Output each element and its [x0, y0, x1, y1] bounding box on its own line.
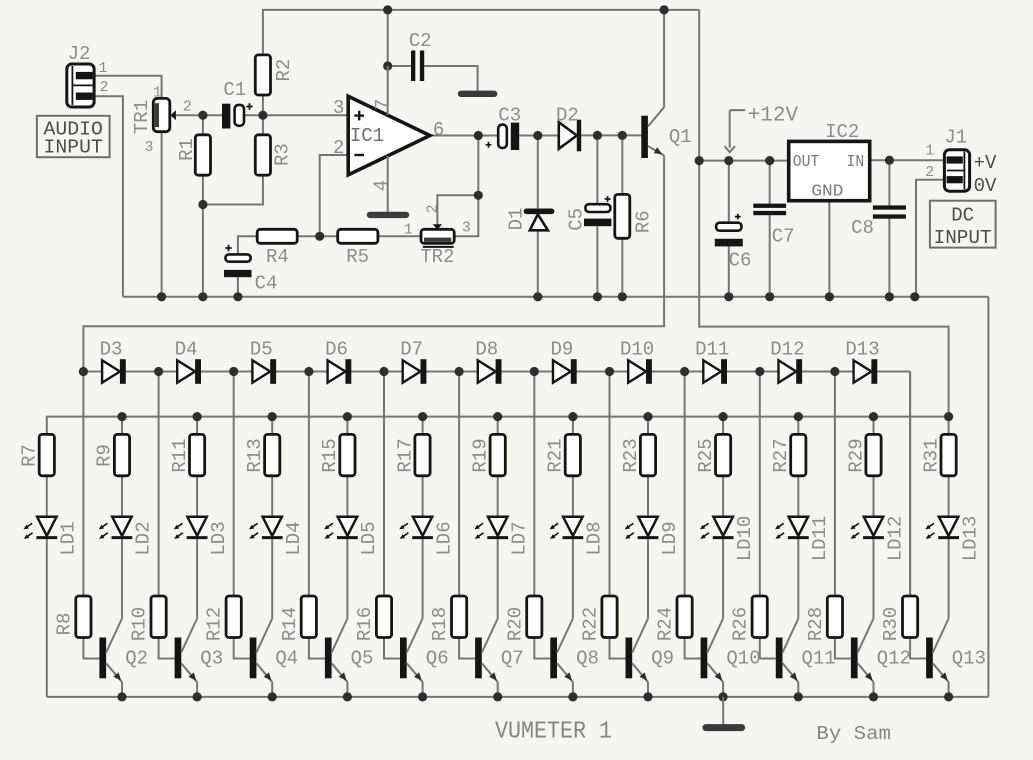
svg-text:C4: C4	[255, 273, 278, 295]
svg-text:IC2: IC2	[825, 121, 859, 143]
connector J2	[67, 64, 94, 107]
label box AUDIO INPUT	[37, 116, 110, 157]
svg-text:Q6: Q6	[426, 648, 449, 670]
svg-text:D8: D8	[475, 339, 498, 361]
junction: ground bus / TR1 pin 3	[157, 292, 166, 301]
svg-text:Q4: Q4	[275, 648, 298, 670]
wire: diode node down to R8	[82, 372, 84, 597]
wire: LD8 cathode to Q8 collector	[572, 539, 574, 619]
voltage regulator IC2	[789, 141, 870, 200]
wire: rail stub to R11	[196, 417, 198, 435]
svg-text:D2: D2	[556, 105, 579, 127]
wire: rail stub to R29	[873, 417, 875, 435]
wire: +12V node to IC2 OUT pin	[699, 160, 789, 162]
junction: TR2 wiper node	[474, 191, 483, 200]
svg-text:Q10: Q10	[726, 648, 760, 670]
svg-text:GND: GND	[811, 182, 843, 201]
power +12V	[725, 110, 746, 152]
wire: IC1 pin 7 up to C2 node	[387, 10, 389, 66]
svg-text:R28: R28	[805, 607, 827, 641]
svg-text:R2: R2	[273, 59, 295, 82]
wire: diode node down to R10	[158, 372, 160, 597]
wire: R1 bottom to ground bus	[202, 175, 204, 297]
junction: IC1 pin 2 / R4 / R5	[315, 232, 324, 241]
resistor R1	[195, 135, 210, 175]
svg-text:C3: C3	[498, 105, 521, 127]
junction: diode chain node 3	[229, 367, 238, 376]
transistor Q11	[776, 619, 799, 683]
wire: LED supply rail	[47, 417, 949, 435]
svg-text:R6: R6	[632, 210, 654, 233]
svg-text:LD2: LD2	[133, 521, 155, 555]
svg-text:By Sam: By Sam	[816, 723, 891, 745]
svg-text:R3: R3	[271, 143, 293, 166]
wire: J1 pin 2 down to ground bus	[916, 180, 944, 297]
resistor R27	[791, 434, 806, 475]
junction: LED rail / R21	[568, 412, 577, 421]
junction: C5 tap	[593, 131, 602, 140]
svg-text:2: 2	[925, 164, 934, 181]
wire: R13 to LD4	[271, 476, 273, 517]
junction: LED rail / R31	[944, 412, 953, 421]
svg-text:D13: D13	[845, 339, 879, 361]
svg-text:D11: D11	[695, 339, 729, 361]
wire: LD9 cathode to Q9 collector	[647, 539, 649, 619]
svg-text:2: 2	[333, 137, 344, 159]
svg-text:R21: R21	[545, 438, 567, 472]
LED LD8	[550, 517, 584, 539]
junction: LED rail / R25	[719, 412, 728, 421]
junction: diode chain node 1	[79, 367, 88, 376]
capacitor C7	[753, 204, 786, 216]
diode D2	[559, 120, 581, 152]
svg-text:Q7: Q7	[501, 648, 524, 670]
junction: diode chain node 4	[304, 367, 313, 376]
svg-text:D1: D1	[505, 208, 527, 231]
capacitor C8	[873, 205, 906, 218]
wire: J2 pin 2 down to ground bus	[94, 96, 123, 296]
svg-text:R22: R22	[580, 607, 602, 641]
svg-text:LD13: LD13	[959, 516, 981, 562]
LED LD9	[625, 517, 659, 539]
svg-text:R7: R7	[19, 444, 41, 467]
wire: R11 to LD3	[196, 476, 198, 517]
svg-text:R29: R29	[845, 438, 867, 472]
svg-text:R17: R17	[394, 438, 416, 472]
LED LD2	[99, 517, 133, 539]
capacitor C2	[411, 51, 424, 82]
wire: R20 to Q8 base	[534, 638, 550, 659]
wire: R17 to LD6	[422, 476, 424, 517]
wire: R5 to TR2 pin 1	[378, 235, 421, 237]
svg-text:LD5: LD5	[358, 521, 380, 555]
resistor R24	[677, 596, 692, 638]
wire: right ground rail down to bottom bus	[987, 297, 989, 697]
wire: R7 to LD1	[46, 476, 48, 517]
junction: diode chain node 6	[455, 367, 464, 376]
LED LD6	[399, 517, 433, 539]
wire: R9 to LD2	[121, 476, 123, 517]
diode D6	[328, 359, 352, 384]
wire: Q2 emitter to ground bus	[121, 682, 123, 697]
wire: R29 to LD12	[873, 476, 875, 517]
svg-text:IN: IN	[847, 152, 865, 171]
junction: LED rail / R29	[869, 412, 878, 421]
svg-text:DC: DC	[951, 204, 974, 226]
junction: ground bus / D1	[533, 292, 542, 301]
wire: diode node down to R28	[834, 372, 836, 597]
resistor R26	[752, 596, 767, 638]
transistor Q2	[99, 619, 122, 683]
junction: V+ rail / Q1 collector	[660, 5, 669, 14]
svg-text:Q11: Q11	[802, 648, 836, 670]
wire: R2 bottom to R3 top through node	[262, 95, 264, 135]
diode D13	[854, 359, 878, 384]
junction: C7 tap on +12V	[765, 156, 774, 165]
svg-text:R24: R24	[655, 607, 677, 641]
wire: C7 top	[769, 161, 771, 204]
wire: C3 to D2 anode node	[519, 135, 559, 137]
junction: R6 tap	[618, 131, 627, 140]
svg-text:Q2: Q2	[125, 648, 148, 670]
wire: R16 to Q6 base	[384, 638, 400, 659]
resistor R5	[338, 229, 378, 243]
wire: R24 to Q10 base	[685, 638, 701, 659]
svg-text:1: 1	[98, 60, 107, 77]
junction: C8 tap on IN	[885, 156, 894, 165]
resistor R4	[257, 229, 297, 243]
svg-text:C6: C6	[729, 249, 752, 271]
svg-text:R1: R1	[176, 138, 198, 161]
junction: LED rail / R17	[418, 412, 427, 421]
wire: IC1 pin 6 output to C3	[430, 135, 498, 137]
trimmer TR1	[153, 98, 176, 131]
wire: rail stub to R21	[572, 417, 574, 435]
junction: ground bus / Q13 emitter	[944, 692, 953, 701]
resistor R30	[903, 596, 918, 638]
wire: R28 to Q12 base	[835, 638, 851, 659]
wire: Q13 emitter to ground bus	[948, 682, 950, 697]
wire: bottom ground bus	[47, 696, 989, 698]
transistor Q13	[926, 619, 949, 683]
svg-text:R25: R25	[695, 438, 717, 472]
wire: rail stub to R31	[948, 417, 950, 435]
svg-text:VUMETER 1: VUMETER 1	[495, 719, 612, 746]
diode D5	[252, 359, 276, 384]
resistor R19	[490, 434, 505, 475]
capacitor C3	[486, 123, 520, 150]
junction: ground bus / C5	[593, 292, 602, 301]
wire: R31 to LD13	[948, 476, 950, 517]
wire: R4 to R5	[297, 235, 338, 237]
wire: LD6 cathode to Q6 collector	[422, 539, 424, 619]
LED LD4	[249, 517, 283, 539]
wire: LD2 cathode to Q2 collector	[121, 539, 123, 619]
svg-text:R19: R19	[470, 438, 492, 472]
resistor R12	[226, 596, 241, 638]
transistor Q3	[175, 619, 198, 683]
wire: top section ground bus	[123, 296, 989, 298]
wire: diode node down to R14	[308, 372, 310, 597]
junction: diode chain node 9	[680, 367, 689, 376]
junction: D1 tap	[533, 131, 542, 140]
wire: rail stub to R19	[497, 417, 499, 435]
wire: TR2 wiper node to wiper arrow	[437, 195, 478, 225]
wire: R6 bottom to ground bus	[621, 238, 623, 296]
diode D4	[177, 359, 201, 384]
svg-text:3: 3	[144, 139, 153, 156]
wire: R10 to Q3 base	[159, 638, 175, 659]
LED LD1	[24, 517, 58, 539]
junction: ground bus / Q5 emitter	[343, 692, 352, 701]
LED LD11	[775, 517, 809, 539]
wire: rail stub to R17	[422, 417, 424, 435]
wire: V+ top rail from R2 to +12V line	[263, 10, 699, 55]
transistor Q10	[701, 619, 724, 683]
resistor R9	[114, 434, 129, 475]
svg-text:2: 2	[425, 204, 442, 213]
svg-text:2: 2	[99, 79, 108, 96]
wire: Q7 emitter to ground bus	[497, 682, 499, 697]
svg-text:Q1: Q1	[669, 126, 692, 148]
svg-text:TR1: TR1	[131, 100, 153, 134]
junction: diode chain node 5	[379, 367, 388, 376]
svg-text:J1: J1	[944, 127, 967, 149]
svg-text:R30: R30	[880, 607, 902, 641]
wire: rail stub to R27	[797, 417, 799, 435]
svg-text:TR2: TR2	[420, 246, 454, 268]
wire: diode node down to R24	[684, 372, 686, 597]
wire: R18 to Q7 base	[459, 638, 475, 659]
connector J1	[944, 150, 969, 191]
resistor R25	[716, 434, 731, 475]
svg-text:R9: R9	[94, 444, 116, 467]
svg-text:Q13: Q13	[952, 648, 986, 670]
junction: output node / C3	[474, 131, 483, 140]
wire: +12V feed down right, across, down to LED rail	[699, 10, 948, 417]
wire: C8 top from IN node	[888, 160, 890, 205]
wire: R12 to Q4 base	[234, 638, 250, 659]
wire: R4 left to C4 top	[238, 236, 257, 254]
junction: LED rail / R13	[268, 412, 277, 421]
svg-text:R14: R14	[279, 607, 301, 641]
wire: diode node down to R18	[458, 372, 460, 597]
wire: R22 to Q9 base	[610, 638, 626, 659]
svg-text:D4: D4	[175, 339, 198, 361]
junction: LED rail / R19	[493, 412, 502, 421]
svg-text:+12V: +12V	[748, 105, 799, 128]
wire: C2 right plate to ground	[424, 66, 477, 91]
wire: R15 to LD5	[346, 476, 348, 517]
svg-text:1: 1	[404, 221, 413, 238]
junction: ground bus / J1 pin 2	[910, 292, 919, 301]
svg-text:3: 3	[462, 220, 471, 237]
transistor Q4	[250, 619, 273, 683]
op-amp IC1	[348, 66, 430, 212]
svg-text:C2: C2	[409, 30, 432, 52]
wire: diode chain row	[83, 371, 910, 373]
wire: output node down to TR2 wiper node	[477, 136, 479, 196]
transistor Q9	[626, 619, 649, 683]
LED LD12	[850, 517, 884, 539]
wire: Q3 emitter to ground bus	[196, 682, 198, 697]
svg-text:LD4: LD4	[283, 521, 305, 555]
wire: IC2 GND pin to ground bus	[828, 201, 830, 297]
svg-text:R8: R8	[53, 613, 75, 636]
wire: C4 bottom to ground bus	[237, 277, 239, 297]
svg-text:D6: D6	[325, 339, 348, 361]
junction: diode chain node 11	[830, 367, 839, 376]
diode D12	[779, 359, 803, 384]
diode D7	[403, 359, 427, 384]
junction: ground bus / Q3 emitter	[193, 692, 202, 701]
resistor R3	[255, 135, 270, 175]
diode D3	[102, 359, 126, 384]
wire: R27 to LD11	[797, 476, 799, 517]
junction: C2 tap	[383, 61, 392, 70]
wire: diode node down to R22	[609, 372, 611, 597]
junction: ground bus / C4	[233, 292, 242, 301]
svg-text:2: 2	[183, 99, 192, 116]
resistor R22	[602, 596, 617, 638]
wire: LD12 cathode to Q12 collector	[873, 539, 875, 619]
wire: node to IC1 pin 3	[263, 114, 348, 116]
LED LD10	[700, 517, 734, 539]
wire: LD13 cathode to Q13 collector	[948, 539, 950, 619]
junction: +12V node	[695, 156, 704, 165]
wire: C5 bottom to ground bus	[596, 226, 598, 296]
junction: diode chain node 10	[755, 367, 764, 376]
svg-text:LD12: LD12	[884, 516, 906, 562]
junction: ground bus / C6	[724, 292, 733, 301]
svg-text:R11: R11	[169, 438, 191, 472]
junction: ground bus / C7	[765, 292, 774, 301]
svg-text:R31: R31	[920, 438, 942, 472]
diode D8	[478, 359, 502, 384]
svg-text:C5: C5	[566, 208, 588, 231]
ground (C2)	[461, 91, 494, 97]
wire: Q6 emitter to ground bus	[422, 682, 424, 697]
wire: LD5 cathode to Q5 collector	[346, 539, 348, 619]
wire: R3 bottom jog to R1 line	[203, 175, 263, 204]
svg-text:R15: R15	[319, 438, 341, 472]
wire: C1 plus to R2/R3 node	[244, 114, 263, 116]
svg-text:Q9: Q9	[651, 648, 674, 670]
junction: diode chain node 2	[154, 367, 163, 376]
wire: LD7 cathode to Q7 collector	[497, 539, 499, 619]
resistor R7	[39, 434, 54, 475]
svg-text:R5: R5	[346, 246, 369, 268]
svg-text:R20: R20	[504, 607, 526, 641]
wire: TR1 pin 3 down to ground bus	[161, 132, 163, 297]
svg-text:R10: R10	[129, 607, 151, 641]
svg-text:D10: D10	[620, 339, 654, 361]
resistor R10	[151, 596, 166, 638]
resistor R2	[255, 55, 270, 95]
junction: ground bus / Q8 emitter	[568, 692, 577, 701]
LED LD3	[174, 517, 208, 539]
svg-text:D12: D12	[770, 339, 804, 361]
junction: C6 tap on +12V	[724, 156, 733, 165]
wire: rail stub to R9	[121, 417, 123, 435]
junction: ground bus / Q2 emitter	[117, 692, 126, 701]
wire: D1 top from node	[537, 136, 539, 209]
wire: R21 to LD8	[572, 476, 574, 517]
svg-text:1: 1	[153, 84, 162, 101]
transistor Q12	[851, 619, 874, 683]
junction: ground bus / C8	[885, 292, 894, 301]
wire: diode node down to R16	[383, 372, 385, 597]
svg-text:LD8: LD8	[584, 521, 606, 555]
junction: LED rail / R27	[794, 412, 803, 421]
junction: diode chain node 7	[530, 367, 539, 376]
junction: ground bus / Q4 emitter	[268, 692, 277, 701]
resistor R21	[565, 434, 580, 475]
svg-text:+V: +V	[974, 152, 997, 174]
wire: IC2 IN pin to J1 pin 1	[870, 159, 945, 161]
wire: Q5 emitter to ground bus	[346, 682, 348, 697]
junction: LED rail / R23	[643, 412, 652, 421]
svg-text:OUT: OUT	[793, 152, 820, 171]
svg-text:Q8: Q8	[576, 648, 599, 670]
capacitor C1	[222, 103, 253, 128]
trimmer TR2	[421, 224, 454, 247]
junction: ground bus / Q6 emitter	[418, 692, 427, 701]
LED LD5	[324, 517, 358, 539]
LED LD7	[474, 517, 508, 539]
resistor R17	[415, 434, 430, 475]
wire: Q8 emitter to ground bus	[572, 682, 574, 697]
diode D10	[628, 359, 652, 384]
junction: LED rail / R15	[343, 412, 352, 421]
wire: TR2 wiper node down to TR2 pin 3	[454, 195, 478, 236]
junction: LED rail / R11	[193, 412, 202, 421]
junction: ground bus / R1	[198, 292, 207, 301]
resistor R18	[452, 596, 467, 638]
diode D11	[703, 359, 727, 384]
wire: Q10 emitter to ground bus	[722, 682, 724, 697]
wire: R6 top from node	[621, 135, 623, 194]
svg-text:LD7: LD7	[509, 521, 531, 555]
wire: IC1 pin 2 from R4/R5 node	[320, 155, 349, 236]
svg-text:6: 6	[433, 119, 444, 141]
label box DC INPUT	[930, 201, 996, 248]
wire: R14 to Q5 base	[309, 638, 325, 659]
svg-text:7: 7	[372, 99, 394, 110]
wire: rail stub to R25	[722, 417, 724, 435]
svg-text:R12: R12	[204, 607, 226, 641]
junction: R1 / R3 bottom	[198, 200, 207, 209]
wire: Q11 emitter to ground bus	[797, 682, 799, 697]
svg-text:Q12: Q12	[877, 648, 911, 670]
wire: rail stub to R13	[271, 417, 273, 435]
svg-text:LD3: LD3	[208, 521, 230, 555]
svg-text:Q5: Q5	[351, 648, 374, 670]
wire: LD3 cathode to Q3 collector	[196, 539, 198, 619]
wire: R23 to LD9	[647, 476, 649, 517]
svg-text:C7: C7	[772, 226, 795, 248]
resistor R16	[376, 596, 391, 638]
resistor R6	[615, 194, 630, 238]
wire: R30 to Q13 base	[910, 638, 926, 659]
diode D9	[553, 359, 577, 384]
svg-text:INPUT: INPUT	[44, 137, 103, 159]
svg-text:R16: R16	[354, 607, 376, 641]
wire: rail stub to R15	[346, 417, 348, 435]
wire: Q1 collector up to V+ rail	[663, 10, 665, 107]
resistor R31	[941, 434, 956, 475]
wire: C8 bottom to ground bus	[888, 219, 890, 297]
